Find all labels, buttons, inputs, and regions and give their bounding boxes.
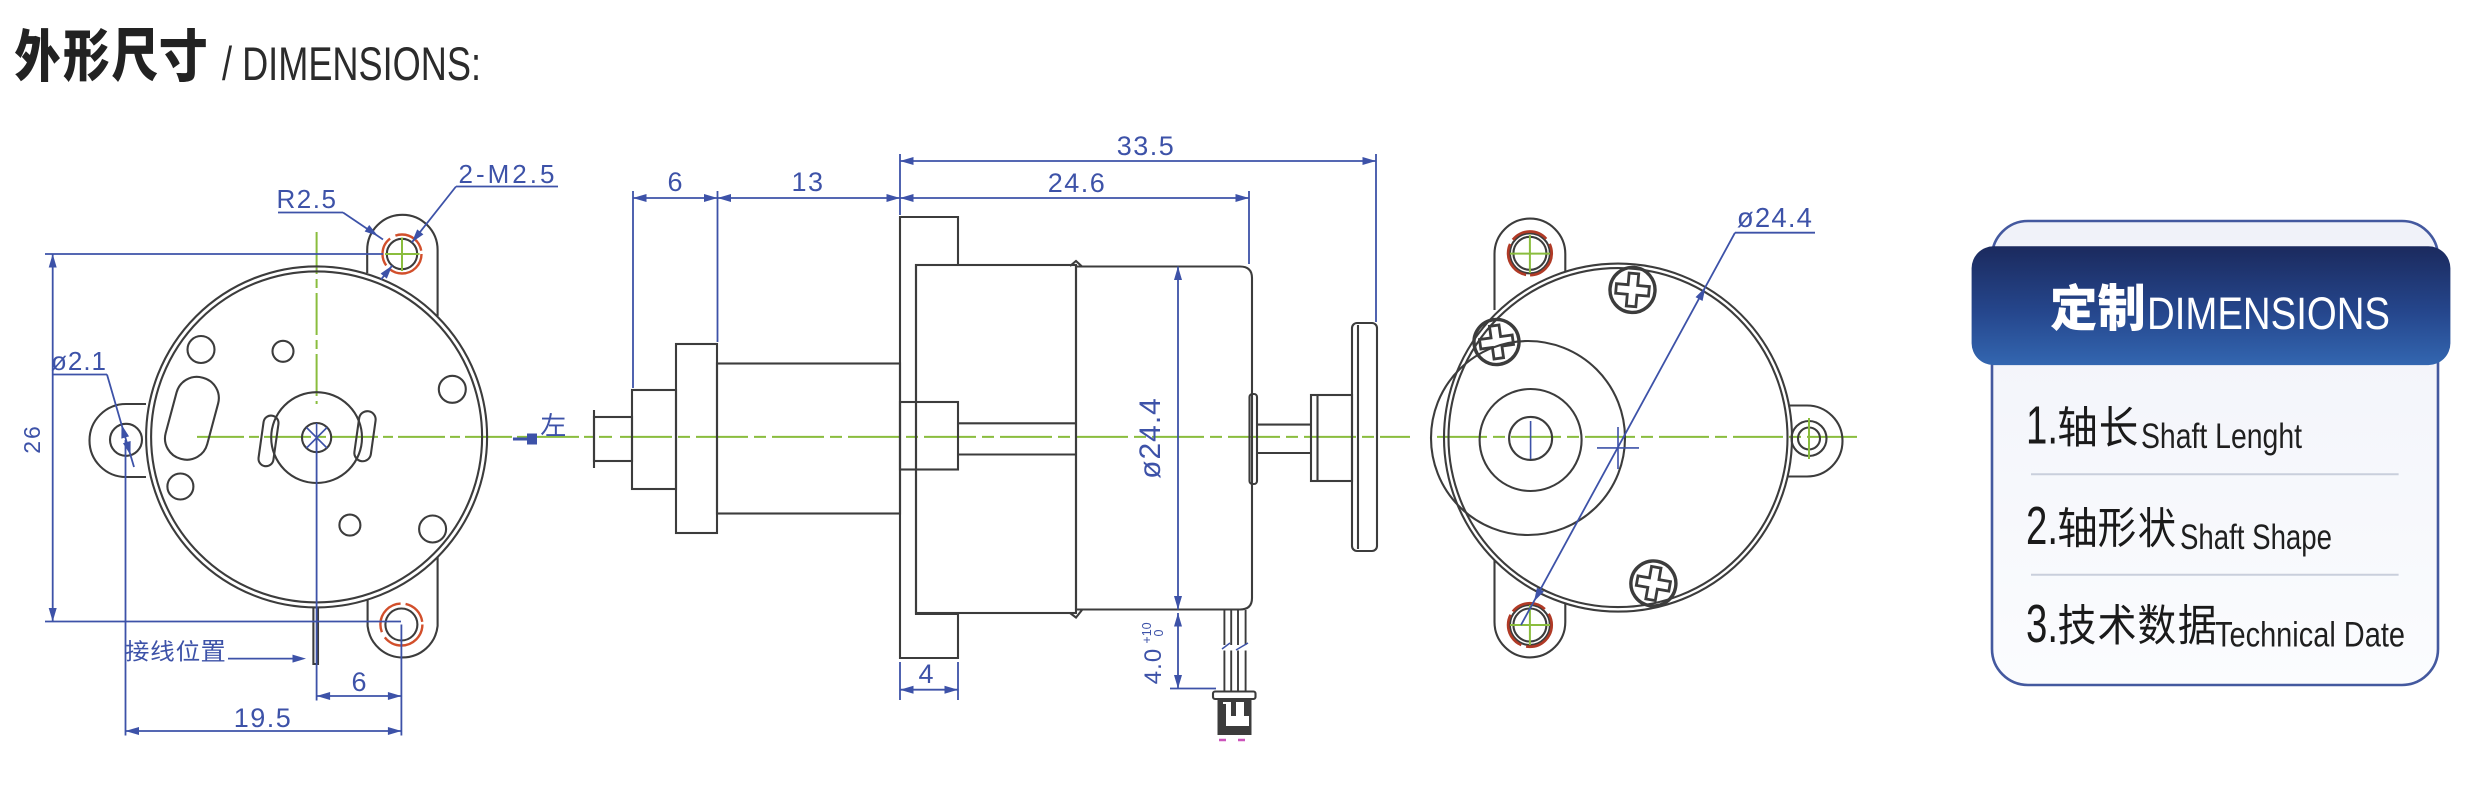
dim 33.5 — [900, 160, 1376, 162]
svg-text:26: 26 — [19, 424, 45, 454]
wire break marks — [1222, 643, 1230, 649]
label 接线位置 (wiring position) — [126, 640, 224, 661]
svg-text:33.5: 33.5 — [1117, 131, 1176, 161]
front view: shaft hole blue star mark — [307, 428, 328, 449]
card item2 轴形状 — [2059, 507, 2175, 547]
side view: shaft tip — [594, 417, 632, 461]
front view: top mounting ear — [367, 215, 437, 316]
side view: shaft step — [632, 390, 676, 489]
label 2-M2.5 underline+leader — [456, 186, 558, 188]
svg-text:ø2.1: ø2.1 — [51, 346, 107, 376]
dim 26 bottom extension line — [45, 621, 401, 623]
side view: internal shaft lines — [958, 422, 1076, 424]
side view: flange boss — [900, 402, 958, 470]
rear view: left screw — [1471, 317, 1522, 368]
dim 4 (flange tab) — [900, 689, 958, 691]
side view: rear disc inner line — [1357, 325, 1359, 549]
section marker 左 — [513, 438, 527, 441]
front view: top ear green cross — [385, 253, 420, 255]
connector body — [1218, 699, 1252, 735]
side view: rear hub block — [1311, 395, 1352, 481]
rear view: bottom screw — [1627, 557, 1679, 609]
rear view: bottom-left ear hole — [1513, 609, 1546, 642]
side view: rear shaft — [1257, 424, 1311, 426]
side view: motor wires — [1223, 610, 1225, 645]
card item3 技术数据 — [2059, 604, 2215, 645]
front view: left mounting ear — [90, 404, 147, 477]
svg-text:4: 4 — [918, 659, 933, 689]
center line horizontal front+side views — [197, 436, 612, 438]
card: header band — [1972, 246, 2451, 365]
dim 13 — [718, 197, 901, 199]
extension line left ear hole down — [125, 440, 127, 736]
wiring position leader — [228, 658, 300, 660]
front view: motor body outer circle — [146, 266, 487, 607]
rear view: bearing circle — [1480, 389, 1582, 491]
rear view: top-left ear hole — [1513, 237, 1546, 270]
dim 19.5 — [126, 730, 402, 732]
ext line x1249 (24.6 right) — [1248, 191, 1250, 264]
front view: terminal wire — [313, 607, 318, 664]
svg-text:ø24.4: ø24.4 — [1134, 397, 1167, 479]
svg-text:R2.5: R2.5 — [277, 184, 338, 214]
dim 26 vertical line — [52, 254, 54, 622]
side view: mounting flange plate — [900, 217, 958, 658]
svg-text:4.0: 4.0 — [1140, 648, 1167, 684]
ext line x900 — [899, 154, 901, 215]
svg-text:6: 6 — [351, 667, 366, 697]
front view: hub circle — [271, 392, 362, 483]
rear view: top-left ear — [1495, 219, 1566, 310]
rear view: right ear — [1788, 406, 1843, 477]
rear view: top screw — [1608, 266, 1657, 315]
front view: top ear red highlight ring — [383, 235, 422, 274]
rear view: bottom-left ear — [1495, 561, 1566, 658]
svg-text:3.: 3. — [2026, 594, 2058, 654]
front view: right arc slot — [353, 410, 376, 462]
front view: bottom mounting ear — [368, 557, 438, 658]
dia2.1 underline+leader — [53, 374, 107, 376]
front view: left arc slot — [258, 415, 280, 468]
svg-text:ø24.4: ø24.4 — [1737, 202, 1813, 233]
side view: rear disc — [1352, 323, 1377, 551]
gearbox/motor joint notch bottom — [1070, 610, 1082, 618]
shaft tip edge overshoot — [593, 410, 595, 468]
front view: face hole 4 — [167, 474, 193, 500]
svg-text:0: 0 — [1152, 629, 1166, 636]
side view: collar — [676, 344, 717, 533]
svg-text:19.5: 19.5 — [234, 703, 293, 733]
connector magenta marks — [1219, 739, 1226, 742]
front view: shaft hole — [302, 423, 331, 452]
rear view: right ear hole — [1792, 421, 1827, 456]
svg-text:6: 6 — [667, 167, 682, 197]
rear view: top-left ear green cross — [1510, 253, 1550, 255]
dia24.4 diagonal leader — [1521, 233, 1735, 625]
card header 定制 — [2051, 283, 2143, 331]
center line vertical front view — [316, 232, 318, 404]
front view: capsule slot — [160, 372, 223, 464]
rear view: top-left ear red ring — [1508, 232, 1552, 276]
extension line from hub center down — [316, 438, 318, 701]
front view: face hole 5 — [339, 515, 360, 536]
rear view: motor inner circle — [1449, 268, 1788, 607]
dim 24.6 — [900, 197, 1249, 199]
side view: front housing — [717, 364, 900, 514]
dim 4 ext lines — [899, 662, 901, 700]
2-M2.5 leader tail arrow — [381, 266, 392, 280]
front view: left ear hole — [110, 424, 142, 456]
extension line bottom ear hole down — [400, 625, 402, 736]
side view: motor can — [1076, 267, 1252, 610]
ext line x633 — [632, 191, 634, 388]
front view: top ear screw hole — [387, 239, 417, 269]
front view: face hole 6 — [419, 516, 446, 543]
rear view: shaft boss center mark — [1530, 421, 1532, 459]
svg-text:1.: 1. — [2026, 395, 2058, 455]
side view: rear hub inner line — [1316, 395, 1318, 481]
connector top plate — [1213, 692, 1256, 700]
rear view: shaft boss circle — [1509, 417, 1552, 460]
svg-text:2.: 2. — [2026, 496, 2058, 556]
svg-text:24.6: 24.6 — [1048, 168, 1107, 198]
dim 4.0 vertical — [1177, 613, 1179, 689]
rear view: right ear green cross — [1808, 418, 1810, 459]
rear view: bottom-left ear green cross — [1510, 624, 1550, 626]
svg-text:Technical Date: Technical Date — [2215, 615, 2405, 654]
svg-text:/ DIMENSIONS:: / DIMENSIONS: — [222, 37, 481, 90]
ext line x718 — [717, 191, 719, 342]
rear view: center cross blue — [1597, 447, 1639, 449]
svg-text:13: 13 — [791, 167, 824, 197]
front view: face hole 1 — [188, 336, 215, 363]
ext line x1376 (33.5 right) — [1375, 154, 1377, 322]
dim 6 (side) — [633, 197, 718, 199]
rear view: gearbox circle — [1431, 341, 1625, 535]
ext line connector top — [1170, 688, 1216, 690]
card divider 1 — [2031, 473, 2399, 475]
rear view: motor outer circle — [1444, 264, 1792, 612]
side view: rear bearing boss — [1250, 394, 1258, 484]
front view: face hole 2 — [273, 341, 294, 362]
dim dia24.4 vertical — [1177, 267, 1179, 610]
svg-text:Shaft Shape: Shaft Shape — [2180, 518, 2332, 557]
card divider 2 — [2031, 574, 2399, 576]
title Chinese 外形尺寸 — [15, 28, 206, 82]
dim 6 (front bottom) — [317, 695, 402, 697]
front view: face hole 3 — [439, 376, 466, 403]
svg-text:2-M2.5: 2-M2.5 — [459, 159, 558, 189]
svg-text:Shaft Lenght: Shaft Lenght — [2141, 417, 2302, 456]
front view: bottom ear red highlight ring — [380, 604, 422, 646]
card item1 轴长 — [2059, 406, 2137, 447]
center line rear view — [1437, 436, 1858, 438]
rear view: bottom-left ear red ring — [1508, 603, 1552, 647]
side view: gearbox body — [916, 265, 1076, 613]
card: white body — [1992, 221, 2438, 685]
front view: bottom ear screw hole — [385, 609, 417, 641]
dim 26 top extension line — [45, 253, 383, 255]
label R2.5 underline+leader — [278, 212, 343, 214]
gearbox/motor joint notch top — [1070, 261, 1082, 267]
label 左 (left) — [541, 413, 565, 436]
dia24.4 underline — [1735, 232, 1815, 234]
svg-text:DIMENSIONS: DIMENSIONS — [2147, 288, 2390, 339]
front view: motor body inner circle — [151, 271, 482, 602]
